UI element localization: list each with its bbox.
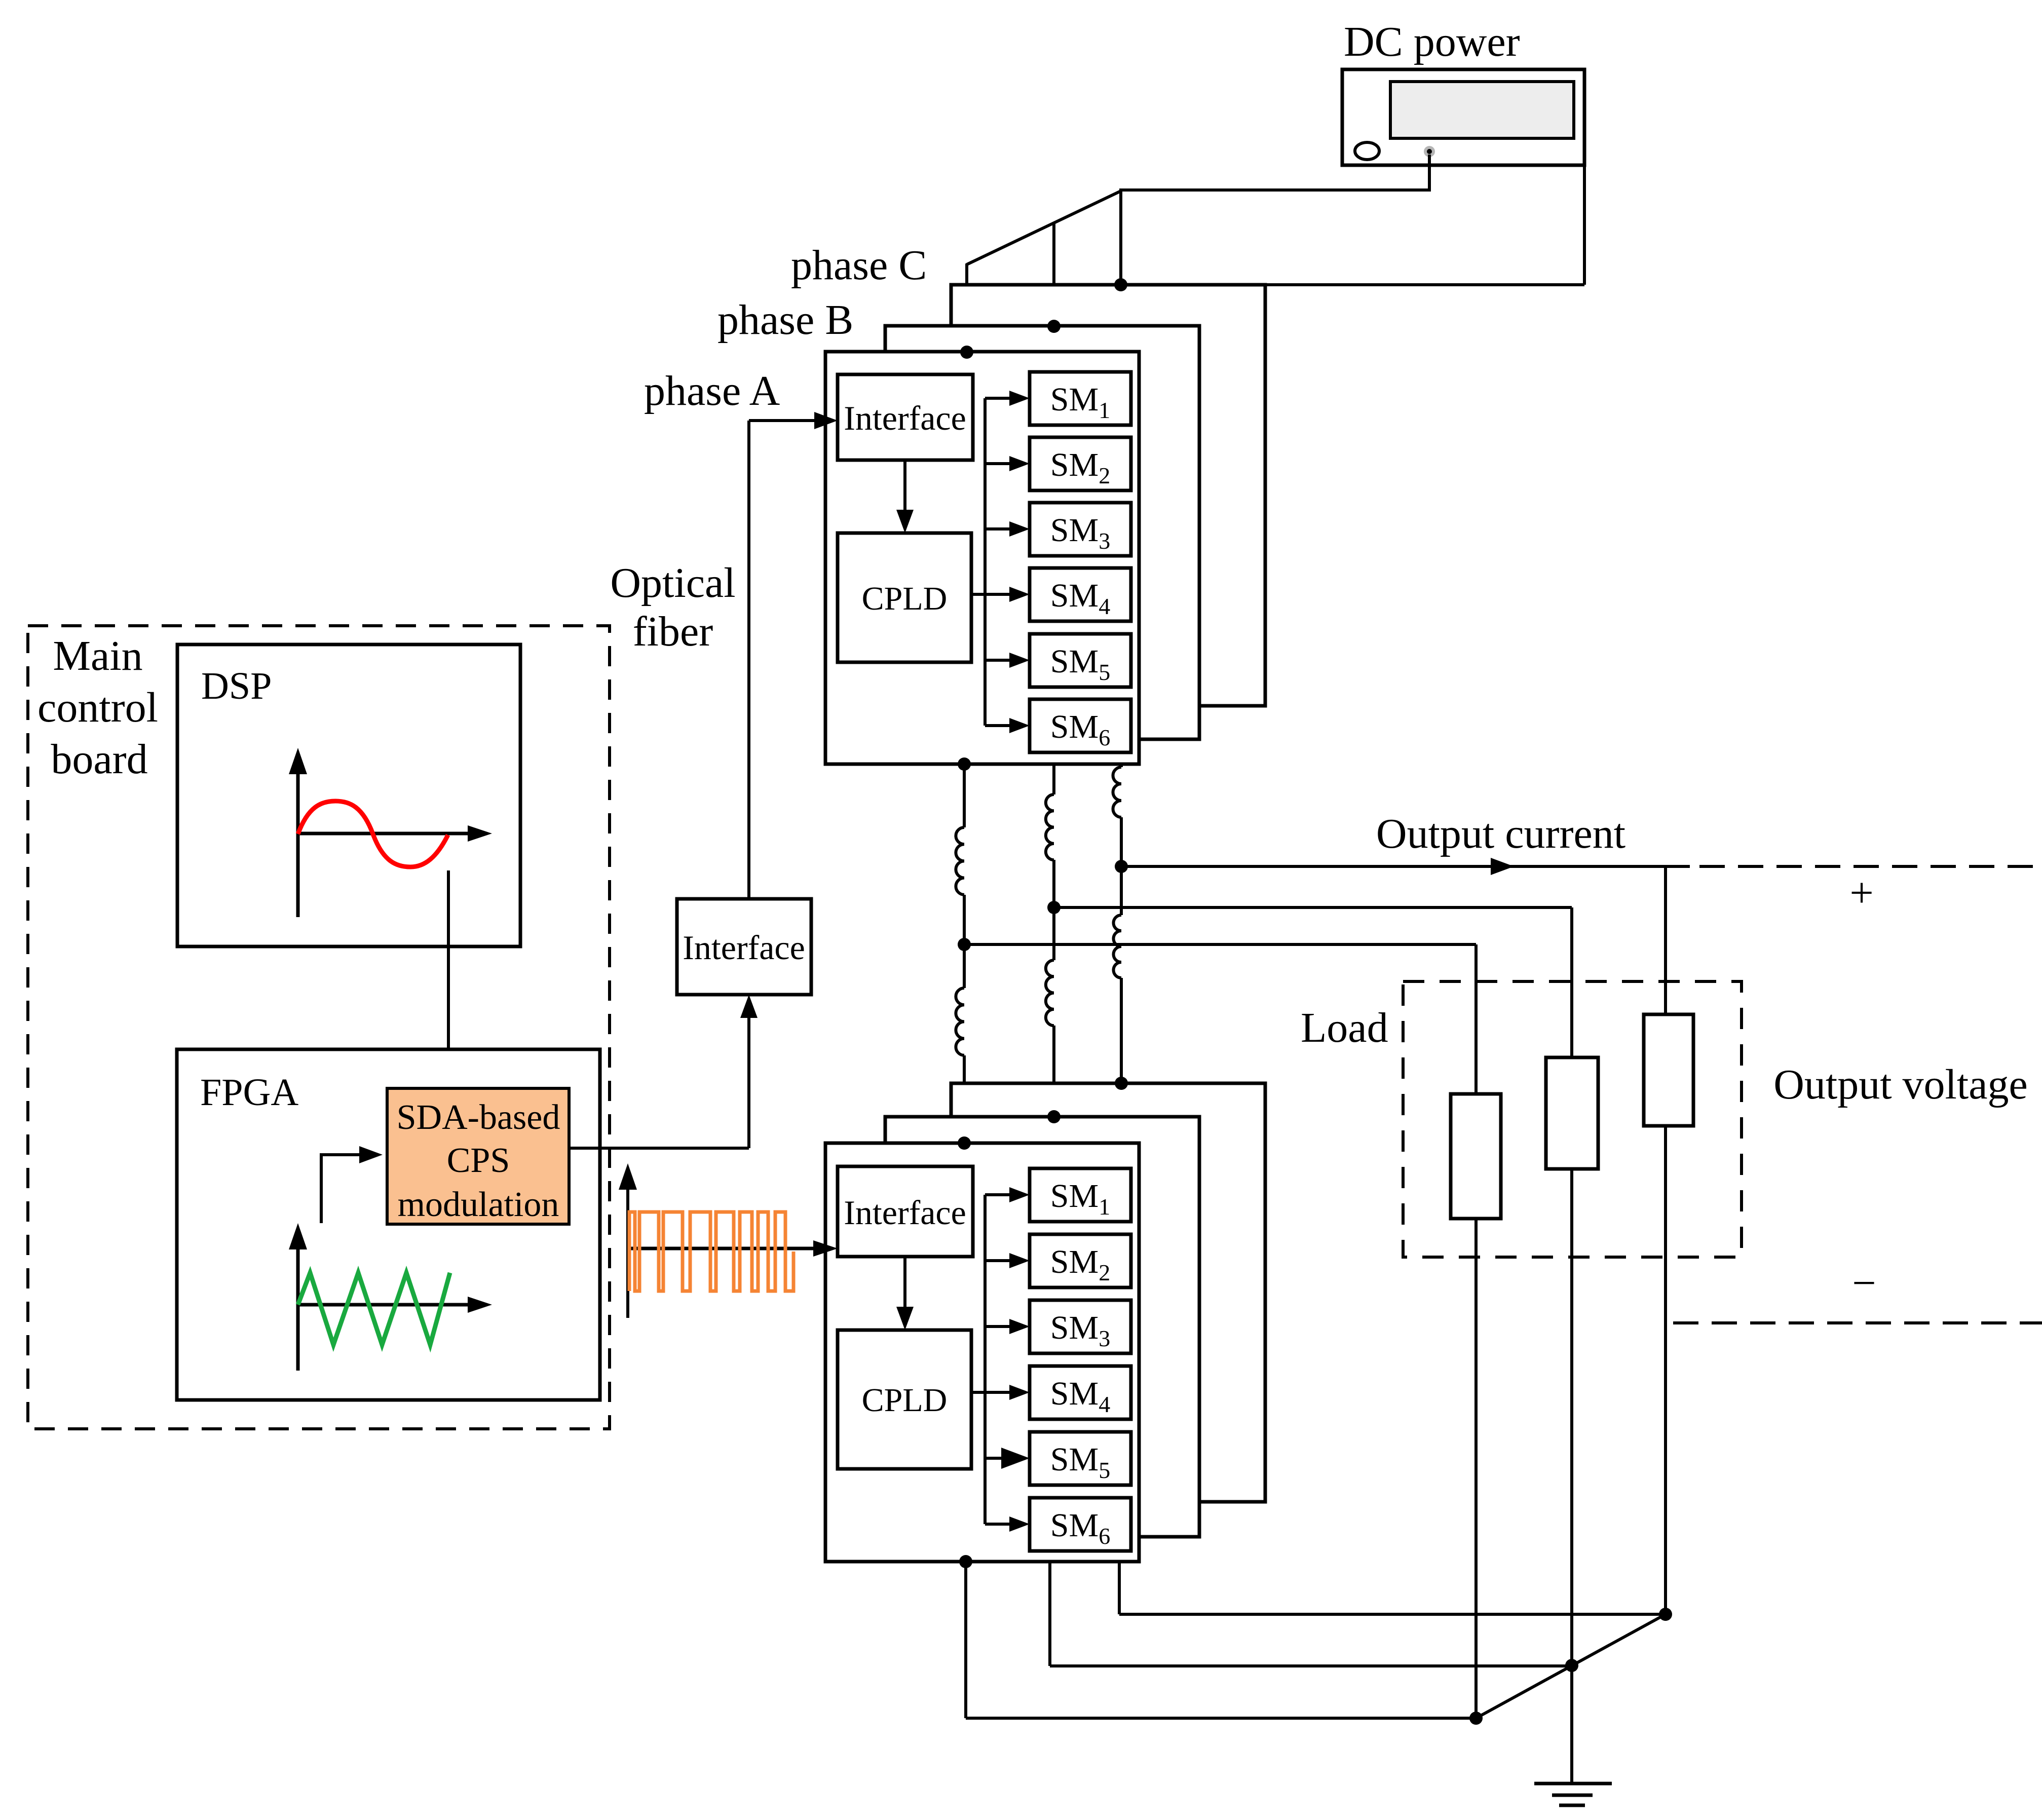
- arrowhead into upper Interface: [814, 412, 838, 429]
- dashed output voltage + lead: [1699, 865, 2042, 868]
- node lower phase C top: [1115, 1077, 1128, 1090]
- wire lower return C down: [1118, 1562, 1121, 1614]
- arrowhead into upper SM2: [1009, 456, 1030, 471]
- lower Interface box: [838, 1166, 973, 1257]
- svg-text:SDA-based: SDA-based: [397, 1098, 560, 1137]
- upper arm inductor C: [1113, 767, 1122, 817]
- DC power supply box: [1342, 69, 1584, 165]
- wire lower return C right: [1119, 1613, 1666, 1616]
- DSP box: [177, 644, 520, 946]
- wire DC+ drop to phase A: [965, 263, 968, 353]
- node output phase C: [1115, 860, 1128, 873]
- svg-text:Output voltage: Output voltage: [1773, 1061, 2028, 1108]
- node lower phase A top: [958, 1136, 971, 1150]
- lower submodule SM2 box: [1030, 1234, 1131, 1287]
- node return C / R3: [1659, 1608, 1672, 1621]
- load dashed box: [1403, 981, 1742, 1257]
- DSP reference sine wave: [298, 801, 448, 867]
- svg-text:control: control: [37, 684, 158, 731]
- wire upper gate branch 4: [985, 593, 1011, 596]
- lower gate distribution line: [984, 1195, 987, 1524]
- DSP plot vertical axis: [296, 772, 300, 917]
- wire upper gate branch 3: [985, 527, 1011, 530]
- wire elbow into SDA block: [321, 1155, 363, 1223]
- svg-text:DC power: DC power: [1344, 18, 1520, 65]
- wire arm A to output node: [963, 895, 966, 988]
- node DC+ on upper phase B: [1047, 320, 1061, 333]
- wire lower arm C: [1120, 978, 1123, 1083]
- svg-text:Output current: Output current: [1376, 810, 1625, 857]
- svg-text:phase B: phase B: [717, 296, 853, 344]
- svg-text:CPS: CPS: [447, 1141, 510, 1180]
- wire SDA output: [570, 1147, 749, 1150]
- wire load resistor R2 bottom: [1570, 1169, 1573, 1784]
- middle Interface box: [677, 899, 811, 995]
- wire upper arm A: [963, 764, 966, 827]
- PWM up arrow: [626, 1173, 629, 1318]
- wire load resistor R1 bottom: [1474, 1219, 1478, 1718]
- lower phase A box: [825, 1143, 1139, 1562]
- FPGA carrier plot horizontal axis: [298, 1303, 471, 1307]
- arrowhead into upper CPLD: [896, 510, 914, 533]
- upper submodule SM1 box: [1030, 372, 1131, 425]
- svg-text:CPLD: CPLD: [862, 580, 948, 617]
- arrowhead into upper SM3: [1009, 521, 1030, 537]
- wire upper gate branch 6: [985, 724, 1011, 727]
- arrowhead into upper SM4: [1009, 587, 1030, 602]
- wire upper gate branch 2: [985, 462, 1011, 465]
- svg-text:CPLD: CPLD: [862, 1382, 948, 1419]
- arrowhead into upper SM1: [1009, 391, 1030, 406]
- wire lower gate branch 2: [985, 1259, 1011, 1262]
- wire optical fiber up: [747, 421, 750, 899]
- arrowhead into lower SM3: [1009, 1319, 1030, 1334]
- arrowhead into lower SM2: [1009, 1253, 1030, 1268]
- DC power knob: [1355, 142, 1379, 160]
- upper gate distribution line: [984, 398, 987, 726]
- upper arm inductor B: [1046, 794, 1054, 860]
- node return B / R2: [1565, 1659, 1578, 1672]
- svg-text:FPGA: FPGA: [200, 1071, 298, 1114]
- node lower C top redraw: [1115, 1077, 1128, 1090]
- upper arm inductor A: [956, 827, 964, 895]
- arrowhead into SDA block: [440, 1062, 457, 1085]
- arrowhead output current: [1491, 858, 1514, 875]
- wire arm C to output node: [1120, 817, 1123, 915]
- wire DC+ diagonal: [967, 191, 1121, 264]
- upper Interface box: [838, 374, 973, 460]
- upper CPLD box: [838, 533, 971, 662]
- node lower B top redraw: [1047, 1110, 1061, 1123]
- wire output phase B to load: [1054, 906, 1572, 909]
- node lower A top redraw: [958, 1136, 971, 1150]
- wire lower arm A: [963, 1055, 966, 1143]
- wire load resistor R3 top: [1664, 866, 1667, 1014]
- wire upper gate branch 5: [985, 659, 1011, 662]
- arrowhead into middle Interface: [740, 995, 758, 1018]
- upper submodule SM6 box: [1030, 699, 1131, 752]
- svg-text:Optical: Optical: [610, 559, 735, 606]
- wire lower gate branch 4: [985, 1391, 1011, 1394]
- svg-text:DSP: DSP: [201, 665, 272, 707]
- svg-text:−: −: [1852, 1260, 1876, 1307]
- wire lower gate branch 1: [985, 1193, 1011, 1196]
- wire arm B to output node: [1052, 860, 1055, 960]
- wire diagonal bus: [1476, 1614, 1666, 1718]
- lower arm inductor C: [1113, 915, 1121, 978]
- main control board dashed box: [28, 626, 610, 1429]
- upper phase A box: [825, 352, 1139, 764]
- svg-text:Main: Main: [53, 632, 142, 679]
- load resistor R3: [1644, 1014, 1693, 1126]
- wire lower return B right: [1050, 1664, 1572, 1667]
- wire upper arm B: [1052, 764, 1055, 794]
- arrowhead elbow into SDA block: [359, 1146, 383, 1163]
- wire load resistor R1 top: [1474, 944, 1478, 1094]
- lower phase C box: [951, 1083, 1265, 1502]
- wire phase A input: [749, 419, 817, 422]
- wire output phase A to load: [964, 943, 1476, 946]
- arrowhead into lower SM5: [1001, 1448, 1030, 1469]
- wire DC+ drop to phase B: [1052, 222, 1055, 327]
- lower submodule SM1 box: [1030, 1168, 1131, 1222]
- arrowhead into lower SM6: [1009, 1516, 1030, 1532]
- PWM plot horizontal axis: [628, 1247, 817, 1250]
- node upper phase A bottom: [958, 757, 971, 771]
- lower submodule SM3 box: [1030, 1300, 1131, 1353]
- lower arm inductor A: [956, 988, 964, 1055]
- wire upper arm C: [1120, 764, 1123, 767]
- green triangle carrier wave: [298, 1273, 450, 1345]
- DC power display screen: [1390, 82, 1574, 138]
- wire DC- right drop: [1583, 165, 1586, 285]
- upper phase B box: [885, 326, 1199, 739]
- wire upper CPLD output: [971, 593, 985, 596]
- arrowhead into upper SM5: [1009, 653, 1030, 668]
- lower phase B box: [885, 1117, 1199, 1537]
- FPGA box: [177, 1049, 600, 1400]
- load resistor R1: [1451, 1094, 1501, 1219]
- lower submodule SM5 box: [1030, 1432, 1131, 1485]
- svg-text:phase A: phase A: [644, 367, 780, 414]
- ground lead: [1570, 1666, 1573, 1784]
- wire output phase C to load: [1121, 865, 1690, 868]
- DC power output terminal: [1424, 146, 1435, 157]
- node output phase B: [1047, 901, 1061, 914]
- upper submodule SM4 box: [1030, 568, 1131, 621]
- svg-text:Interface: Interface: [844, 399, 966, 437]
- lower CPLD box: [838, 1330, 971, 1469]
- node lower phase B top: [1047, 1110, 1061, 1123]
- load resistor R2: [1546, 1057, 1598, 1169]
- arrowhead into lower CPLD: [896, 1307, 914, 1330]
- wire lower return A right: [966, 1717, 1476, 1720]
- svg-text:Interface: Interface: [844, 1193, 966, 1232]
- wire upper Interface to CPLD: [903, 460, 906, 513]
- wire SDA output up: [747, 1001, 750, 1148]
- wire DC+ terminal down: [1428, 155, 1431, 190]
- FPGA carrier plot vertical axis: [296, 1247, 300, 1371]
- node DC+ on upper phase A: [960, 346, 973, 359]
- dashed output voltage - lead: [1673, 1321, 2042, 1324]
- wire lower gate branch 6: [985, 1523, 1011, 1526]
- wire lower return A down: [964, 1562, 967, 1718]
- wire load resistor R2 top: [1570, 907, 1573, 1057]
- svg-text:Interface: Interface: [683, 928, 805, 967]
- svg-text:board: board: [51, 736, 147, 783]
- wire DC+ drop to phase C: [1119, 190, 1122, 285]
- wire lower gate branch 5: [985, 1457, 1011, 1460]
- lower submodule SM6 box: [1030, 1498, 1131, 1551]
- node return A / R1: [1469, 1712, 1483, 1725]
- upper submodule SM5 box: [1030, 634, 1131, 687]
- upper submodule SM2 box: [1030, 437, 1131, 490]
- arrowhead into lower SM1: [1009, 1187, 1030, 1202]
- wire load resistor R3 bottom: [1664, 1126, 1667, 1614]
- node lower phase A bottom: [959, 1555, 972, 1568]
- upper submodule SM3 box: [1030, 503, 1131, 556]
- wire lower CPLD output: [971, 1391, 985, 1394]
- wire lower Interface to CPLD: [903, 1257, 906, 1310]
- svg-text:fiber: fiber: [633, 608, 713, 655]
- SDA-based CPS modulation block: [387, 1088, 569, 1224]
- wire upper gate branch 1: [985, 397, 1011, 400]
- ground symbol: [1534, 1782, 1612, 1786]
- arrowhead into lower SM4: [1009, 1385, 1030, 1400]
- node output phase A: [958, 938, 971, 951]
- svg-text:Load: Load: [1301, 1004, 1388, 1051]
- wire lower gate branch 3: [985, 1325, 1011, 1328]
- wire DSP to FPGA: [447, 870, 450, 1060]
- node DC+ on upper phase C: [1114, 278, 1127, 291]
- DSP plot horizontal axis: [298, 832, 471, 836]
- wire DC+ horizontal: [1119, 188, 1431, 192]
- wire lower arm B: [1052, 1026, 1055, 1117]
- wire DC- bus to phase C top: [1262, 283, 1584, 286]
- svg-text:+: +: [1849, 869, 1873, 917]
- svg-text:modulation: modulation: [398, 1185, 559, 1224]
- arrowhead into upper SM6: [1009, 718, 1030, 733]
- lower arm inductor B: [1046, 960, 1054, 1026]
- orange PWM waveform: [629, 1212, 793, 1291]
- upper phase C box: [951, 285, 1265, 706]
- svg-text:phase C: phase C: [791, 242, 927, 289]
- lower submodule SM4 box: [1030, 1366, 1131, 1419]
- wire lower return B down: [1048, 1562, 1051, 1666]
